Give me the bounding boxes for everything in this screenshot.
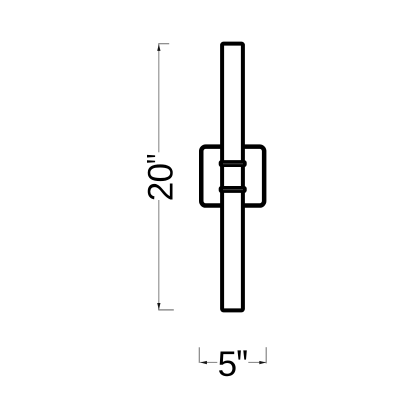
dimension line 20 inch (vertical) <box>158 44 160 310</box>
arrow left <box>200 361 207 364</box>
band clamp lower <box>219 186 247 193</box>
label 20 inch quote marks <box>147 155 155 163</box>
svg-text:5: 5 <box>218 345 237 384</box>
arrow up <box>157 44 160 51</box>
tick right of 5 inch dim <box>265 347 267 363</box>
svg-text:20: 20 <box>141 164 180 202</box>
tick bottom of 20 inch dim <box>158 309 174 311</box>
band clamp upper <box>219 160 247 167</box>
tick left of 5 inch dim <box>198 347 200 363</box>
label 5 inch quote marks <box>238 350 247 359</box>
fixture bar <box>222 44 243 311</box>
arrow right <box>259 361 266 364</box>
tick top of 20 inch dim <box>158 43 169 45</box>
arrow down <box>157 303 160 310</box>
backplate square <box>201 147 264 206</box>
dimension line 5 inch (horizontal) <box>200 361 266 363</box>
